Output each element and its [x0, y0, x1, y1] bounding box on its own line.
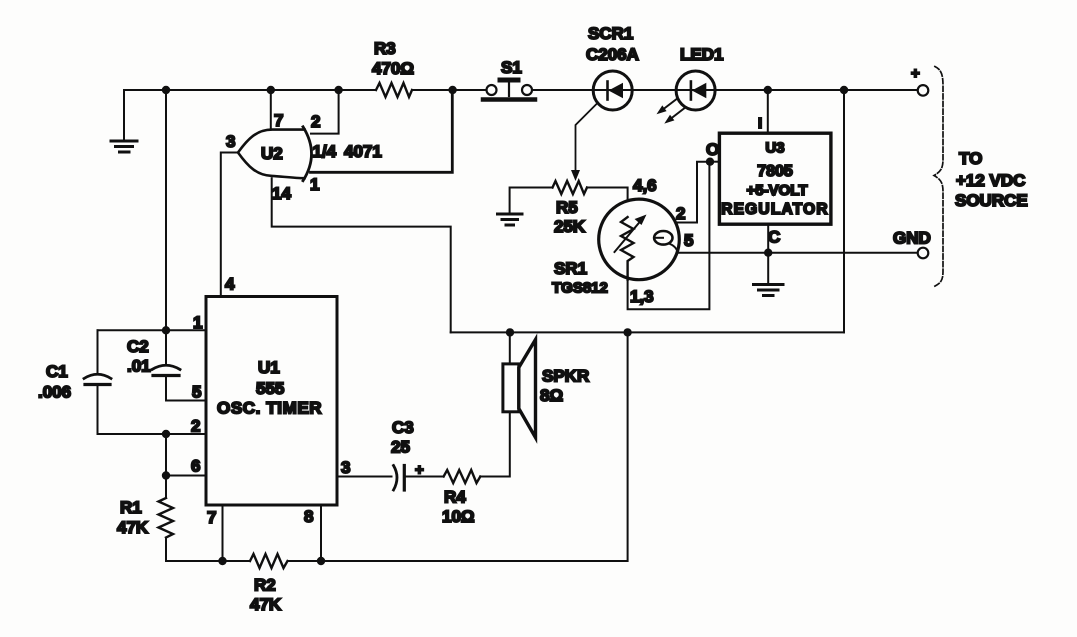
- svg-text:470Ω: 470Ω: [372, 59, 414, 78]
- svg-text:.01: .01: [127, 357, 151, 376]
- brace to source: [933, 67, 943, 288]
- node: rail junction at U2 pin1 branch: [448, 86, 456, 94]
- svg-text:1,3: 1,3: [630, 287, 654, 306]
- speaker SPKR 8ohm: [503, 340, 589, 438]
- SCR SCR1 C206A: [586, 24, 639, 110]
- node O (U3 output): [706, 140, 720, 166]
- node: junction speaker top: [506, 328, 514, 336]
- svg-text:TGS812: TGS812: [552, 280, 608, 297]
- svg-text:2: 2: [191, 417, 200, 436]
- svg-text:14: 14: [272, 184, 291, 203]
- switch S1: [483, 58, 535, 100]
- wire: R4 to speaker bottom: [480, 412, 510, 477]
- wire: C2 to U1 pin5: [166, 376, 206, 402]
- wire: pin2 node down to pin6 node: [166, 434, 206, 476]
- svg-text:6: 6: [191, 457, 200, 476]
- svg-text:.006: .006: [38, 383, 71, 402]
- wire: mid horizontal (+12 distribution): [451, 331, 844, 333]
- svg-text:4: 4: [225, 275, 235, 294]
- resistor R2 47K: [223, 554, 322, 614]
- wire: U1 pin8 stub: [304, 505, 321, 561]
- node: rail junction U2 pin2: [334, 86, 342, 94]
- wire: ground branch from rail down to U1 pin1 / C2: [165, 90, 167, 363]
- wire: U2 pin7 from rail: [271, 90, 284, 130]
- svg-text:1/4: 1/4: [313, 142, 337, 161]
- terminal + (+12 VDC): [911, 65, 928, 96]
- svg-text:1: 1: [310, 175, 319, 194]
- wire: SR1 pin2 up to O node: [676, 162, 710, 223]
- svg-text:C206A: C206A: [586, 45, 639, 64]
- svg-text:4,6: 4,6: [633, 176, 657, 195]
- label TO +12 VDC SOURCE: [955, 149, 1028, 210]
- ground (R5): [498, 214, 523, 225]
- svg-text:8Ω: 8Ω: [540, 386, 563, 405]
- svg-text:3: 3: [226, 132, 235, 151]
- svg-text:2: 2: [311, 112, 320, 131]
- potentiometer R5 25K: [553, 181, 588, 236]
- wire: C1 bottom to U1 pin2: [98, 385, 207, 436]
- svg-text:5: 5: [684, 231, 693, 250]
- resistor R1 47K: [117, 476, 173, 538]
- svg-text:O: O: [706, 140, 719, 159]
- wire: +12 feed down from rail to mid horizontal: [843, 90, 845, 332]
- wire: U1 pin1 with C1 top leg: [98, 313, 207, 332]
- ground (below U3): [754, 285, 784, 296]
- svg-text:U1: U1: [258, 358, 280, 377]
- wire: U2 pin3 output to U1 pin4: [221, 132, 238, 297]
- svg-text:47K: 47K: [250, 595, 282, 614]
- node: junction pin2: [162, 430, 170, 438]
- wire: GND line from SR1 pin5 to GND terminal: [677, 252, 918, 254]
- node: junction pin7 / bottom rail: [218, 557, 226, 565]
- svg-text:1: 1: [193, 313, 202, 332]
- svg-text:7805: 7805: [757, 163, 793, 180]
- wire: rail R3 to S1: [412, 89, 487, 91]
- node: junction C wire / GND line: [764, 249, 772, 257]
- capacitor C3 25 (polarized): [391, 418, 424, 490]
- svg-text:SR1: SR1: [554, 259, 587, 278]
- node: rail junction to U1 pin1 ground branch: [162, 86, 170, 94]
- wire: C3 to R4: [404, 476, 443, 478]
- svg-text:+: +: [911, 65, 920, 82]
- wire: R5 right to SR1 pins 4,6: [587, 188, 628, 218]
- svg-text:+12 VDC: +12 VDC: [956, 171, 1025, 190]
- wire: rail S1 to + terminal (through SCR1 / LED1): [532, 89, 918, 91]
- svg-text:U3: U3: [765, 140, 784, 157]
- wire: U1 pin3 output: [337, 458, 392, 477]
- svg-text:R2: R2: [254, 576, 276, 595]
- wire: SR1 pins 1,3 to O node: [628, 162, 710, 310]
- svg-text:R5: R5: [556, 198, 578, 217]
- svg-text:10Ω: 10Ω: [442, 507, 475, 526]
- svg-text:REGULATOR: REGULATOR: [721, 201, 829, 218]
- node: junction 555 pin8 branch: [623, 328, 631, 336]
- node: rail junction U3 input: [764, 86, 772, 94]
- op-gate U2 1/4 4071: [238, 127, 382, 181]
- svg-text:+5-VOLT: +5-VOLT: [747, 182, 808, 199]
- wire: SCR1 gate to R5 wiper: [571, 104, 597, 182]
- svg-text:LED1: LED1: [680, 45, 723, 64]
- LED LED1: [657, 45, 724, 124]
- regulator U3 7805: [719, 115, 831, 224]
- IC U1 555 OSC. TIMER: [206, 297, 337, 506]
- wire: bottom rail right then up to +12 mid horizontal: [321, 332, 628, 561]
- svg-text:25: 25: [391, 438, 410, 457]
- wire: U2 pin1 input from rail junction: [310, 90, 452, 194]
- svg-text:SCR1: SCR1: [588, 24, 633, 43]
- svg-text:R1: R1: [120, 498, 142, 517]
- wire: U2 pin2 from rail: [311, 90, 339, 134]
- sensor SR1 TGS812: [552, 176, 693, 306]
- svg-text:SOURCE: SOURCE: [955, 191, 1028, 210]
- capacitor C2 .01: [127, 337, 180, 376]
- wire: R5 left to ground: [510, 188, 553, 214]
- node: junction pin1 / ground branch: [162, 326, 170, 334]
- wire: top rail left (ground net): [124, 89, 376, 91]
- svg-text:2: 2: [676, 204, 685, 223]
- svg-text:R3: R3: [374, 39, 396, 58]
- wire: U2 pin14 to +12 mid horizontal: [272, 178, 451, 332]
- svg-text:C1: C1: [46, 362, 68, 381]
- wire: speaker top to +12 mid horizontal: [509, 332, 511, 364]
- node: junction pin8 / bottom rail: [317, 557, 325, 565]
- wire: U3 common down to ground: [768, 224, 780, 284]
- svg-text:C2: C2: [127, 337, 149, 356]
- svg-text:4071: 4071: [344, 142, 382, 161]
- svg-text:R4: R4: [444, 488, 466, 507]
- svg-text:TO: TO: [959, 149, 982, 168]
- svg-text:47K: 47K: [117, 518, 149, 537]
- svg-text:3: 3: [341, 458, 350, 477]
- svg-text:25K: 25K: [554, 217, 586, 236]
- node: junction pin6: [162, 471, 170, 479]
- svg-text:S1: S1: [501, 58, 522, 77]
- resistor R3: [372, 39, 414, 97]
- svg-text:8: 8: [304, 507, 313, 526]
- wire: U3 input from rail: [767, 90, 769, 133]
- resistor R4 10ohm: [442, 470, 480, 526]
- svg-text:U2: U2: [261, 144, 283, 163]
- svg-text:C: C: [768, 228, 780, 247]
- capacitor C1 .006: [38, 330, 111, 401]
- svg-text:SPKR: SPKR: [542, 367, 589, 386]
- svg-text:555: 555: [256, 379, 284, 398]
- svg-text:GND: GND: [893, 229, 931, 248]
- svg-text:7: 7: [274, 111, 283, 130]
- svg-text:I: I: [758, 115, 762, 132]
- svg-text:C3: C3: [392, 418, 414, 437]
- svg-text:OSC. TIMER: OSC. TIMER: [217, 399, 322, 418]
- node: rail junction U2 pin7: [267, 86, 275, 94]
- svg-text:5: 5: [192, 383, 201, 402]
- node: rail junction +12 feed down: [840, 86, 848, 94]
- terminal GND: [893, 229, 931, 259]
- ground (top-left): [111, 90, 137, 152]
- svg-text:7: 7: [207, 508, 216, 527]
- wire: R1 bottom to bottom rail: [166, 538, 223, 562]
- wire: U1 pin7 stub: [207, 505, 223, 561]
